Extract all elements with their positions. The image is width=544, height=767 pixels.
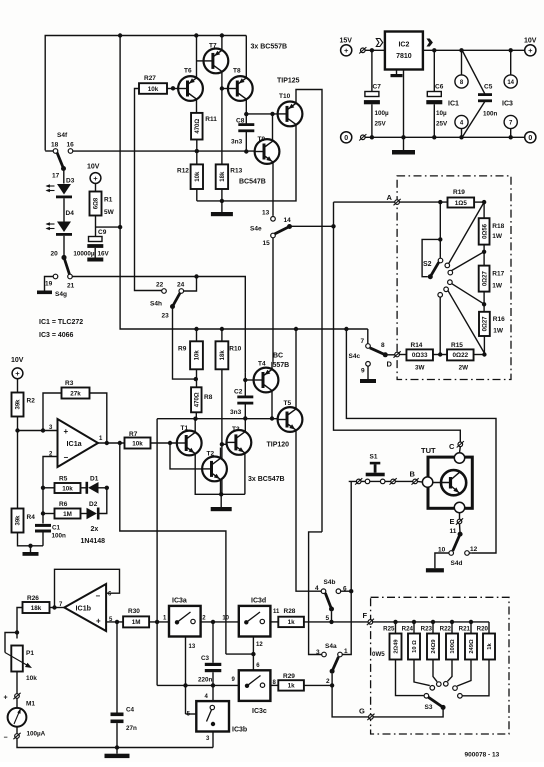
svg-text:P1: P1 [26,650,34,657]
capacitor C4 [116,622,118,713]
wire TUT emitter to E [459,513,461,520]
svg-text:6Ω8: 6Ω8 [94,197,100,209]
resistor R16 [479,312,490,336]
svg-text:T9: T9 [258,136,266,143]
wire R18 bottom lead [483,245,485,266]
wire C2 bottom [244,403,246,418]
wire T4 emitter [271,362,273,370]
wire feedback vertical lower [156,622,158,686]
svg-text:R9: R9 [178,346,187,353]
power terminal 0V right [525,132,536,143]
svg-text:M1: M1 [26,701,35,708]
wire R26 left to P1 [17,608,23,639]
node junction emitter gnd rail [219,492,223,496]
svg-text:22: 22 [156,282,164,289]
wire D3 to D4 [63,198,65,221]
wire T9 collector [272,114,274,141]
node junction R18-R17 [482,250,486,254]
svg-text:100µ: 100µ [375,110,390,117]
wire S4a-2 to R29 wire [331,674,333,686]
svg-text:5: 5 [326,615,330,622]
svg-text:T6: T6 [184,68,192,75]
svg-text:25V: 25V [436,121,448,128]
svg-text:R30: R30 [128,608,140,615]
svg-text:E: E [450,517,455,526]
transistor under test [441,470,466,495]
svg-text:S4a: S4a [325,643,337,650]
svg-text:R23: R23 [421,626,433,633]
ground bar C9 [87,258,103,262]
ground symbol supply [403,137,405,150]
node junction R15-R16 [482,352,486,356]
wire top supply rail [45,36,246,151]
node junction R8 bottom [193,417,197,421]
node junction R11-R12-16wire [195,149,199,153]
svg-text:18k: 18k [220,171,226,182]
svg-text:D: D [387,359,393,368]
svg-text:18k: 18k [31,605,42,612]
svg-text:S4f: S4f [57,132,68,139]
wire S2 contact to R19 node [449,202,484,263]
svg-text:IC3: IC3 [502,101,513,108]
svg-text:S3: S3 [425,704,433,711]
node junction R25 top [393,620,397,624]
svg-text:BC: BC [273,353,283,360]
svg-text:10k: 10k [132,440,143,447]
svg-text:R1: R1 [104,197,113,204]
IC1 supply pin 4 [455,115,468,128]
svg-text:C9: C9 [98,229,107,236]
wire R8 bottom to T5 base rail [195,412,197,418]
ground symbol S4d [426,568,444,572]
wire 10V to R2 [17,379,19,393]
svg-text:F: F [363,611,368,620]
IC1 supply pin 8 [461,50,463,75]
wire S4a-3 feed from T10 [309,532,322,655]
wire R2 to +input [17,417,19,509]
node junction C3 branch [211,620,215,624]
node junction S4b-6 [349,589,353,593]
node junction IC2 gnd [401,135,405,139]
svg-text:10k: 10k [62,485,73,492]
svg-text:R22: R22 [440,626,452,633]
node junction bias rail S1 branch [344,327,348,331]
wire S4c-9 to ground [367,366,369,379]
svg-text:R28: R28 [284,608,296,615]
capacitor C5 [463,51,486,94]
svg-text:3x BC547B: 3x BC547B [248,476,285,483]
svg-text:R14: R14 [411,342,423,349]
wire T1 emitter to gnd rail [195,454,245,495]
svg-text:3x BC557B: 3x BC557B [251,44,288,51]
analog switch IC3c [239,670,271,701]
svg-text:C6: C6 [435,84,444,91]
wire C3 node to IC3b pin4 [212,685,214,701]
wire C9 node down to bias rail [120,227,368,329]
node junction R9 top [194,327,198,331]
wire R16 bottom lead [483,336,485,355]
svg-text:T10: T10 [279,93,291,100]
svg-text:3W: 3W [415,364,425,371]
wire 0V rail [365,136,525,138]
svg-text:IC1b: IC1b [76,604,92,613]
wire R9 bottom to R8 [196,369,198,387]
svg-text:100Ω: 100Ω [450,639,456,654]
svg-text:10 Ω: 10 Ω [412,640,418,653]
opamp IC1a [58,419,99,467]
wire IC3a pin2 to IC3d pin10 [201,621,239,623]
wire T5 collector [295,329,297,409]
svg-text:2: 2 [326,678,330,685]
wire C to TUT [459,447,462,453]
wire R28 to F [304,621,368,623]
svg-text:0Ω27: 0Ω27 [483,316,489,331]
svg-text:+: + [64,427,69,436]
node junction T1 base [168,441,172,445]
node junction +input [15,428,19,432]
svg-text:R16: R16 [493,316,505,323]
node junction P1 top [15,630,19,634]
wire IC1b output to R26 [50,607,65,609]
wire R3 right to output [90,393,107,443]
wire S4b-6 stub [341,590,352,592]
wire C3 bottom rail [157,684,239,686]
svg-text:R8: R8 [204,394,213,401]
node junction T4 collector [270,416,274,420]
svg-text:0Ω22: 0Ω22 [453,352,469,359]
wire R9 top lead [196,329,198,341]
wire R14 to R15 [433,354,447,356]
node junction IC3 supply branch [509,48,513,52]
resistor R11 [191,113,203,140]
wire 15V input [365,49,384,51]
node junction S4h-24 riser [194,274,198,278]
wire +input [18,430,58,432]
svg-text:10V: 10V [11,357,24,364]
wire P1 to M1 plus [16,672,18,694]
node junction R22 top [450,620,454,624]
wire T8 base [222,88,228,90]
wire 10V to R1 [95,183,97,191]
wire T10 base [246,113,277,115]
svg-text:11: 11 [273,609,280,615]
svg-text:24: 24 [177,282,185,289]
node junction ground rail R13 [220,199,224,203]
power terminal 0V left [341,132,352,143]
wire T6 emitter to R11 [196,99,198,113]
svg-text:4: 4 [315,585,319,592]
wire T10 emitter loop to long vertical [296,90,322,532]
node junction R23 top [431,620,435,624]
wire T2 emitter [220,480,222,495]
wire R7 to T1 [151,442,177,444]
wire S4g-19 to ground [45,277,54,291]
wire S1 contact row [349,480,413,482]
node junction pin12-pin6 [251,652,255,656]
svg-text:1: 1 [344,648,348,655]
capacitor C7 electrolytic [371,50,373,91]
wire T5 emitter to S4b-4 [296,430,322,591]
svg-text:3n3: 3n3 [231,139,243,146]
wire S4h-24 riser [184,277,197,292]
wire B to TUT base [417,480,422,483]
svg-text:16V: 16V [98,251,110,258]
svg-text:1Ω5: 1Ω5 [455,200,468,207]
wire R27 left to S4h [135,89,162,291]
wire T8 collector to rail [245,36,247,78]
svg-text:R21: R21 [459,626,471,633]
node junction R9-R8-S4h23 [194,377,198,381]
svg-text:TIP125: TIP125 [277,78,300,85]
svg-text:17: 17 [52,173,60,180]
svg-text:2Ω49: 2Ω49 [394,639,400,654]
IC3 supply pin 14 [510,50,512,75]
svg-text:S4b: S4b [324,579,336,586]
svg-text:0Ω33: 0Ω33 [412,352,428,359]
svg-text:15: 15 [263,240,271,247]
node junction output to switch feed [118,441,122,445]
wire T7 collector [221,36,223,51]
wire D2 to output branch [100,488,107,514]
node junction R24 top [412,620,416,624]
wire R1 to C9 node [95,216,97,237]
svg-text:20: 20 [51,251,59,258]
wire S1 row to S4b-6 riser [342,481,351,654]
wire R27 right to T6 base [167,88,178,90]
svg-text:18k: 18k [220,350,226,361]
node junction IC3 gnd [509,135,513,139]
wire bias rail to S4c-7 [367,329,369,344]
wire E to S4d [459,524,462,534]
potentiometer P1 [11,646,22,672]
wire T5 base rail [157,418,277,420]
svg-text:C3: C3 [201,655,210,662]
svg-text:10k: 10k [195,171,201,182]
svg-text:7810: 7810 [396,53,412,60]
svg-text:3n3: 3n3 [230,409,242,416]
node junction C4 branch [115,620,119,624]
wire S2 riser [439,202,441,258]
wire S4h-23 down to R9 bottom [173,309,196,380]
node junction R5 [41,486,45,490]
svg-text:IC1a: IC1a [67,439,83,448]
ground symbol bottom [116,748,118,754]
svg-text:R5: R5 [59,476,68,483]
svg-text:18: 18 [51,142,59,149]
svg-text:B: B [410,470,416,479]
svg-text:5W: 5W [104,209,115,216]
wire R6 left [43,513,55,515]
wire R19 to R18 [474,201,484,203]
svg-text:−: − [96,592,101,601]
wire T7 base [196,60,203,62]
wire pin13 to IC3b pin5 [186,713,197,715]
svg-text:IC1 = TLC272: IC1 = TLC272 [39,319,83,326]
svg-text:220n: 220n [198,677,213,684]
svg-text:249Ω: 249Ω [469,639,475,654]
svg-text:R26: R26 [27,595,39,602]
resistor R4 [12,509,24,533]
wire IC3d pin11 to R28 [270,621,278,623]
svg-text:10V: 10V [87,164,100,171]
analog switch IC3b [196,701,229,731]
node junction C1 gnd [28,544,32,548]
svg-text:D1: D1 [90,476,99,483]
wire R23 to S3 contact [433,660,437,682]
svg-text:900078 - 13: 900078 - 13 [465,752,500,759]
svg-text:T5: T5 [284,400,292,407]
svg-text:D4: D4 [66,210,75,217]
analog switch IC3d [239,606,271,637]
svg-text:BC547B: BC547B [239,179,266,186]
wire T9 emitter to S4e pin13 [272,162,274,216]
wire R12 bottom [196,189,198,201]
svg-text:R18: R18 [492,223,504,230]
svg-text:TUT: TUT [421,446,436,455]
node junction C4 gnd [115,745,119,749]
svg-text:7: 7 [361,338,365,345]
node junction C7 gnd [370,135,374,139]
capacitor C6 electrolytic [433,50,435,91]
wire R15 to R16 [474,354,485,356]
node junction S4a-2 R29 [330,683,334,687]
wire IC1a output [98,442,125,444]
wire A to R19 [399,201,447,203]
svg-text:R2: R2 [27,398,36,405]
node junction bias rail T5 branch [294,327,298,331]
opamp IC1b [64,584,106,631]
svg-text:R17: R17 [492,270,504,277]
node junction R17-R16 [482,302,486,306]
svg-text:IC3 = 4066: IC3 = 4066 [39,332,74,339]
wire R25 to S3 contact [396,660,424,696]
svg-text:T8: T8 [233,68,241,75]
dashed enclosure load resistors [397,176,511,380]
svg-text:470Ω: 470Ω [195,392,201,407]
svg-text:IC2: IC2 [398,42,409,49]
node junction T4 base [243,378,247,382]
svg-text:470Ω: 470Ω [195,119,201,134]
wire IC2 gnd [403,70,405,138]
wire C9 node to vertical [96,226,121,228]
resistor R2 [12,393,24,417]
wire T3 collector [244,419,246,434]
wire S4e-14 to A riser [292,225,334,227]
svg-text:24Ω9: 24Ω9 [431,639,437,654]
svg-text:8: 8 [381,342,385,349]
svg-text:15V: 15V [340,38,353,45]
svg-text:R10: R10 [229,346,241,353]
svg-text:557B: 557B [273,362,290,369]
node junction R21 top [469,620,473,624]
ground symbol driver stage [221,201,223,212]
svg-text:10V: 10V [524,38,537,45]
svg-text:9: 9 [361,368,365,375]
svg-text:TIP120: TIP120 [267,442,290,449]
svg-text:10k: 10k [195,350,201,361]
node junction S2 riser [438,200,442,204]
wire R3 left to +input [43,393,62,431]
svg-text:D3: D3 [66,178,75,185]
S1 contact right [380,479,385,484]
svg-text:100n: 100n [52,533,67,540]
S1 contact left [365,479,370,484]
svg-text:IC3d: IC3d [251,598,266,605]
node junction R27-T6 [171,86,175,90]
svg-text:10: 10 [222,616,229,622]
svg-text:2W: 2W [459,364,469,371]
svg-text:R13: R13 [230,168,242,175]
wire IC3b pin3 [212,732,214,748]
wire IC1b feedback loop [55,569,120,607]
wire IC3c pin8 to R29 [270,684,278,686]
wire T3 emitter [244,453,246,494]
svg-text:C1: C1 [52,525,61,532]
wire IC3d pin12 [252,637,254,671]
wire IC1b plus input [106,621,123,623]
wire T7 emitter to R13/T8 base [221,71,223,164]
wire C9 supply vertical [119,36,121,228]
svg-text:12: 12 [470,546,478,553]
wire T1-T2 base link [170,443,202,469]
wire S4f-16 to T9 base line [73,150,255,152]
node junction output-feedback [52,605,56,609]
svg-text:1W: 1W [493,328,504,335]
transistor T9 [255,139,280,164]
wire T5 base rail feedback down [156,419,158,622]
node junction R3 output [105,441,109,445]
connector S1 right [391,479,396,484]
wire D to R14 [399,354,406,356]
svg-text:S4h: S4h [150,301,162,308]
svg-text:R11: R11 [205,116,217,123]
svg-text:39k: 39k [16,515,22,526]
node junction T3 base [220,442,224,446]
resistor R8 [191,387,202,412]
wire T4 collector [271,391,273,419]
node junction rail-T7 branch [220,33,224,37]
wire output feed to R30 node [120,443,226,654]
svg-text:R24: R24 [402,626,414,633]
node junction D1 output branch [105,486,109,490]
svg-text:IC1: IC1 [448,101,459,108]
svg-text:R6: R6 [59,501,68,508]
svg-text:13: 13 [189,644,196,650]
svg-text:S4c: S4c [349,353,361,360]
svg-text:0: 0 [528,135,532,142]
node junction C2 bottom [243,416,247,420]
svg-text:1M: 1M [132,619,141,626]
node junction C6 branch [432,48,436,52]
wire T4 base to C2 [244,380,246,397]
wire S1 row feed [346,329,496,553]
svg-text:G: G [359,707,365,716]
svg-text:14: 14 [284,217,292,224]
node junction A riser [331,224,335,228]
wire R24 to S3 contact [414,660,430,686]
svg-text:S4d: S4d [451,560,463,567]
dashed enclosure range resistors [371,597,509,734]
wire A riser down to C node [334,202,461,442]
node junction R30-IC3a-feedback [155,620,159,624]
svg-text:R29: R29 [283,673,295,680]
svg-text:+: + [344,46,349,55]
svg-text:12: 12 [256,642,263,648]
svg-text:100n: 100n [483,111,498,118]
wire S4f-17 to D3 [63,169,65,184]
svg-text:+: + [4,695,8,702]
wire IC3a pin13 [185,637,187,715]
